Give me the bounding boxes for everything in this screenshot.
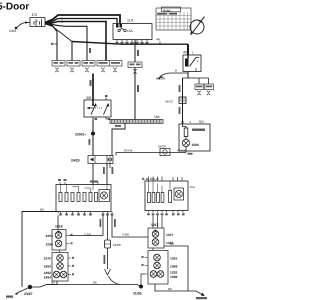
right lower housing left stubs <box>145 258 149 275</box>
svg-text:24/20: 24/20 <box>158 145 166 149</box>
svg-text:1004: 1004 <box>46 234 54 238</box>
svg-text:1098: 1098 <box>170 275 178 279</box>
svg-text:GN-W: GN-W <box>177 149 185 153</box>
hatched connector bar <box>110 120 163 124</box>
right lamp top stubs <box>149 177 183 182</box>
wire fan line 4 vertical x87 <box>52 25 87 61</box>
switch arrow left <box>89 107 94 109</box>
svg-text:5-Door: 5-Door <box>0 2 29 13</box>
wire switch down to strip <box>92 120 94 156</box>
svg-text:54/50: 54/50 <box>165 100 173 104</box>
svg-text:+: + <box>37 19 39 23</box>
bulb 1045 <box>152 239 159 246</box>
connector tag right 1 <box>195 84 204 90</box>
svg-text:BK: BK <box>93 281 97 285</box>
wires below left lamp to center <box>70 215 104 235</box>
bulb housing right lower <box>148 251 168 285</box>
connector symbol below tag4b <box>113 68 117 72</box>
svg-text:18A: 18A <box>154 115 161 119</box>
node splice right 31/55 <box>139 285 143 289</box>
svg-text:BK: BK <box>170 242 174 246</box>
wire bus down to switch 4/5 <box>187 44 189 55</box>
wire feed to headlamp switch <box>92 74 94 101</box>
svg-text:1894: 1894 <box>44 276 52 280</box>
bulb 1047 <box>152 231 159 238</box>
tick on x57 wire <box>55 43 58 45</box>
wire fan line 1 to fuse box <box>52 15 120 24</box>
connector tag on fuse wire <box>128 62 142 68</box>
connector symbol on fuse wire <box>133 69 137 73</box>
svg-text:1017: 1017 <box>151 223 159 227</box>
wire lamp pin down to bulbs 1018 <box>57 215 59 229</box>
connector tag 4 wide <box>97 61 122 67</box>
svg-text:1292: 1292 <box>170 271 178 275</box>
connector tag 1 <box>52 61 65 67</box>
svg-text:Y-BR: Y-BR <box>84 233 92 237</box>
left combination lamp box <box>56 185 111 212</box>
fuse box bottom pins <box>117 40 147 42</box>
wire fan line 6 diagonal to bus <box>52 26 72 42</box>
connector symbol below tag2 <box>70 68 74 72</box>
switch top-right pin <box>105 98 107 101</box>
bulb stubs right lower <box>68 258 71 275</box>
left combination lamp labels above pins <box>58 179 61 181</box>
svg-text:1588: 1588 <box>192 143 199 147</box>
bulbs 1292 1098 double <box>150 271 157 278</box>
wire battery left lead <box>17 23 30 28</box>
key position icon (circle with pointer) <box>190 20 204 34</box>
right lamp bulb elements <box>148 193 151 203</box>
wire fuse to bar x135 <box>134 40 136 120</box>
wire horizontal bus y42 to right switch <box>72 42 188 45</box>
switch dotted link <box>95 107 103 109</box>
wire lower housing to ground run <box>47 281 58 285</box>
wire branch right to tags <box>183 77 209 79</box>
svg-text:15A: 15A <box>190 185 195 189</box>
left lamp top pin stubs <box>60 182 98 185</box>
arrow symbol down <box>105 269 111 275</box>
svg-text:1893: 1893 <box>44 264 52 268</box>
strip connector 24/29 <box>88 156 113 164</box>
bulb housing left lower <box>52 253 68 282</box>
wire right housing to ground <box>155 284 196 291</box>
svg-text:1072: 1072 <box>44 256 52 260</box>
wires right lamp down to housing <box>153 216 162 229</box>
wire 4/5 output down <box>183 72 189 125</box>
right lamp bottom pins <box>149 211 184 213</box>
wire cylinder down to arrow <box>107 248 109 269</box>
svg-text:BK: BK <box>40 208 44 212</box>
bulb 1893 <box>57 263 64 270</box>
right combination lamp box <box>145 181 188 211</box>
svg-text:11/1: 11/1 <box>127 19 134 23</box>
connector symbol below tag1 <box>55 68 59 72</box>
pin blocks inside fuse box top <box>116 24 119 28</box>
svg-text:2/1M: 2/1M <box>9 29 16 33</box>
switch 4/5 <box>183 55 201 72</box>
svg-text:5/1: 5/1 <box>199 120 204 124</box>
wire fan line 2 to fuse box <box>52 19 117 24</box>
lamp unit 5/1 <box>179 124 210 151</box>
bulb 1091 <box>154 254 161 261</box>
battery 1/1 <box>30 18 45 27</box>
left lamp flasher circle <box>99 190 110 202</box>
svg-text:31/55: 31/55 <box>133 292 142 296</box>
fuse symbol <box>118 29 120 31</box>
switch bottom pins <box>93 117 106 120</box>
svg-text:1091: 1091 <box>170 257 178 261</box>
svg-text:1047: 1047 <box>166 233 174 237</box>
svg-text:24/88: 24/88 <box>113 243 121 247</box>
svg-text:B: B <box>175 69 177 73</box>
bulb housing left upper <box>52 230 66 251</box>
node splice 23001 <box>91 132 95 136</box>
bulb stubs right <box>66 236 70 244</box>
right lamp flasher circle <box>174 188 184 200</box>
bulb 1004 <box>55 232 62 239</box>
connector symbol right 2 <box>207 91 211 95</box>
svg-text:1/1: 1/1 <box>32 12 38 17</box>
svg-text:3/8: 3/8 <box>86 96 91 100</box>
bulb 1072 <box>57 255 64 262</box>
wire fan line 3 vertical x106 <box>52 22 106 61</box>
svg-text:15A: 15A <box>127 29 134 33</box>
bulb 1056 <box>55 240 62 247</box>
ground splice left 23/67 <box>28 285 32 289</box>
relay table top right <box>156 8 191 30</box>
ground arrow right G-112 <box>196 291 203 295</box>
fuse box 11/1 <box>113 24 152 40</box>
svg-text:V-BR: V-BR <box>122 233 130 237</box>
svg-text:GN-W: GN-W <box>124 149 132 153</box>
bulb housing right upper <box>148 228 164 248</box>
switch lever 1 <box>91 105 96 115</box>
inline connector cylinder 24/88 <box>105 240 111 248</box>
svg-text:1098: 1098 <box>170 265 178 269</box>
svg-text:BK: BK <box>51 281 55 285</box>
wires strip down to lamp box <box>92 164 94 185</box>
left lamp bulb elements <box>59 193 62 202</box>
switch 3/8 <box>84 100 111 117</box>
wire GN-W horizontal to 5/1 <box>116 152 186 154</box>
svg-text:24/29: 24/29 <box>71 159 80 163</box>
switch lever 2 <box>104 105 109 115</box>
left lamp bottom pins <box>61 212 91 214</box>
wire branch left with arrow BK/GN <box>160 73 189 77</box>
svg-text:23/67: 23/67 <box>24 292 33 296</box>
wire splice up to right housing <box>141 274 145 287</box>
pin label N-S <box>188 153 193 155</box>
resistor in 5/1 <box>184 128 188 137</box>
svg-text:1056: 1056 <box>46 243 54 247</box>
svg-text:BK: BK <box>168 287 172 291</box>
node dots on fan lines <box>61 14 63 16</box>
connector symbol right 1 <box>197 91 201 95</box>
wire fan line 5 vertical x57 <box>52 25 57 61</box>
svg-text:Relay: Relay <box>163 9 171 13</box>
connector tag 2 <box>67 61 80 67</box>
connector tag 3 <box>82 61 95 67</box>
svg-text:4B: 4B <box>160 75 164 79</box>
svg-text:23001+: 23001+ <box>75 133 86 137</box>
wire vertical x72 <box>71 42 73 61</box>
svg-text:+: + <box>181 120 183 124</box>
wire bar down-left to strip <box>112 124 125 156</box>
svg-text:B, A, CA, C: B, A, CA, C <box>142 177 159 181</box>
wire BK right to ground rail <box>164 246 188 291</box>
bulb 1588 in 5/1 <box>182 139 189 146</box>
connector tag right 2 <box>205 84 214 90</box>
wire BK left lamp to left ground rail <box>22 212 57 288</box>
svg-text:1018: 1018 <box>55 225 63 229</box>
bulb 1098 <box>154 262 161 269</box>
fan cone at battery output <box>45 19 52 27</box>
inline connector splice on feed <box>179 97 186 104</box>
bulbs 1892 1894 double <box>53 271 60 278</box>
connector symbol below tag3 <box>85 68 89 72</box>
svg-text:1892: 1892 <box>44 271 52 275</box>
ground run bottom <box>30 285 141 288</box>
node splice at battery lead <box>15 27 18 30</box>
connector symbol below tag4a <box>101 68 105 72</box>
ground lead arrow <box>17 287 30 293</box>
